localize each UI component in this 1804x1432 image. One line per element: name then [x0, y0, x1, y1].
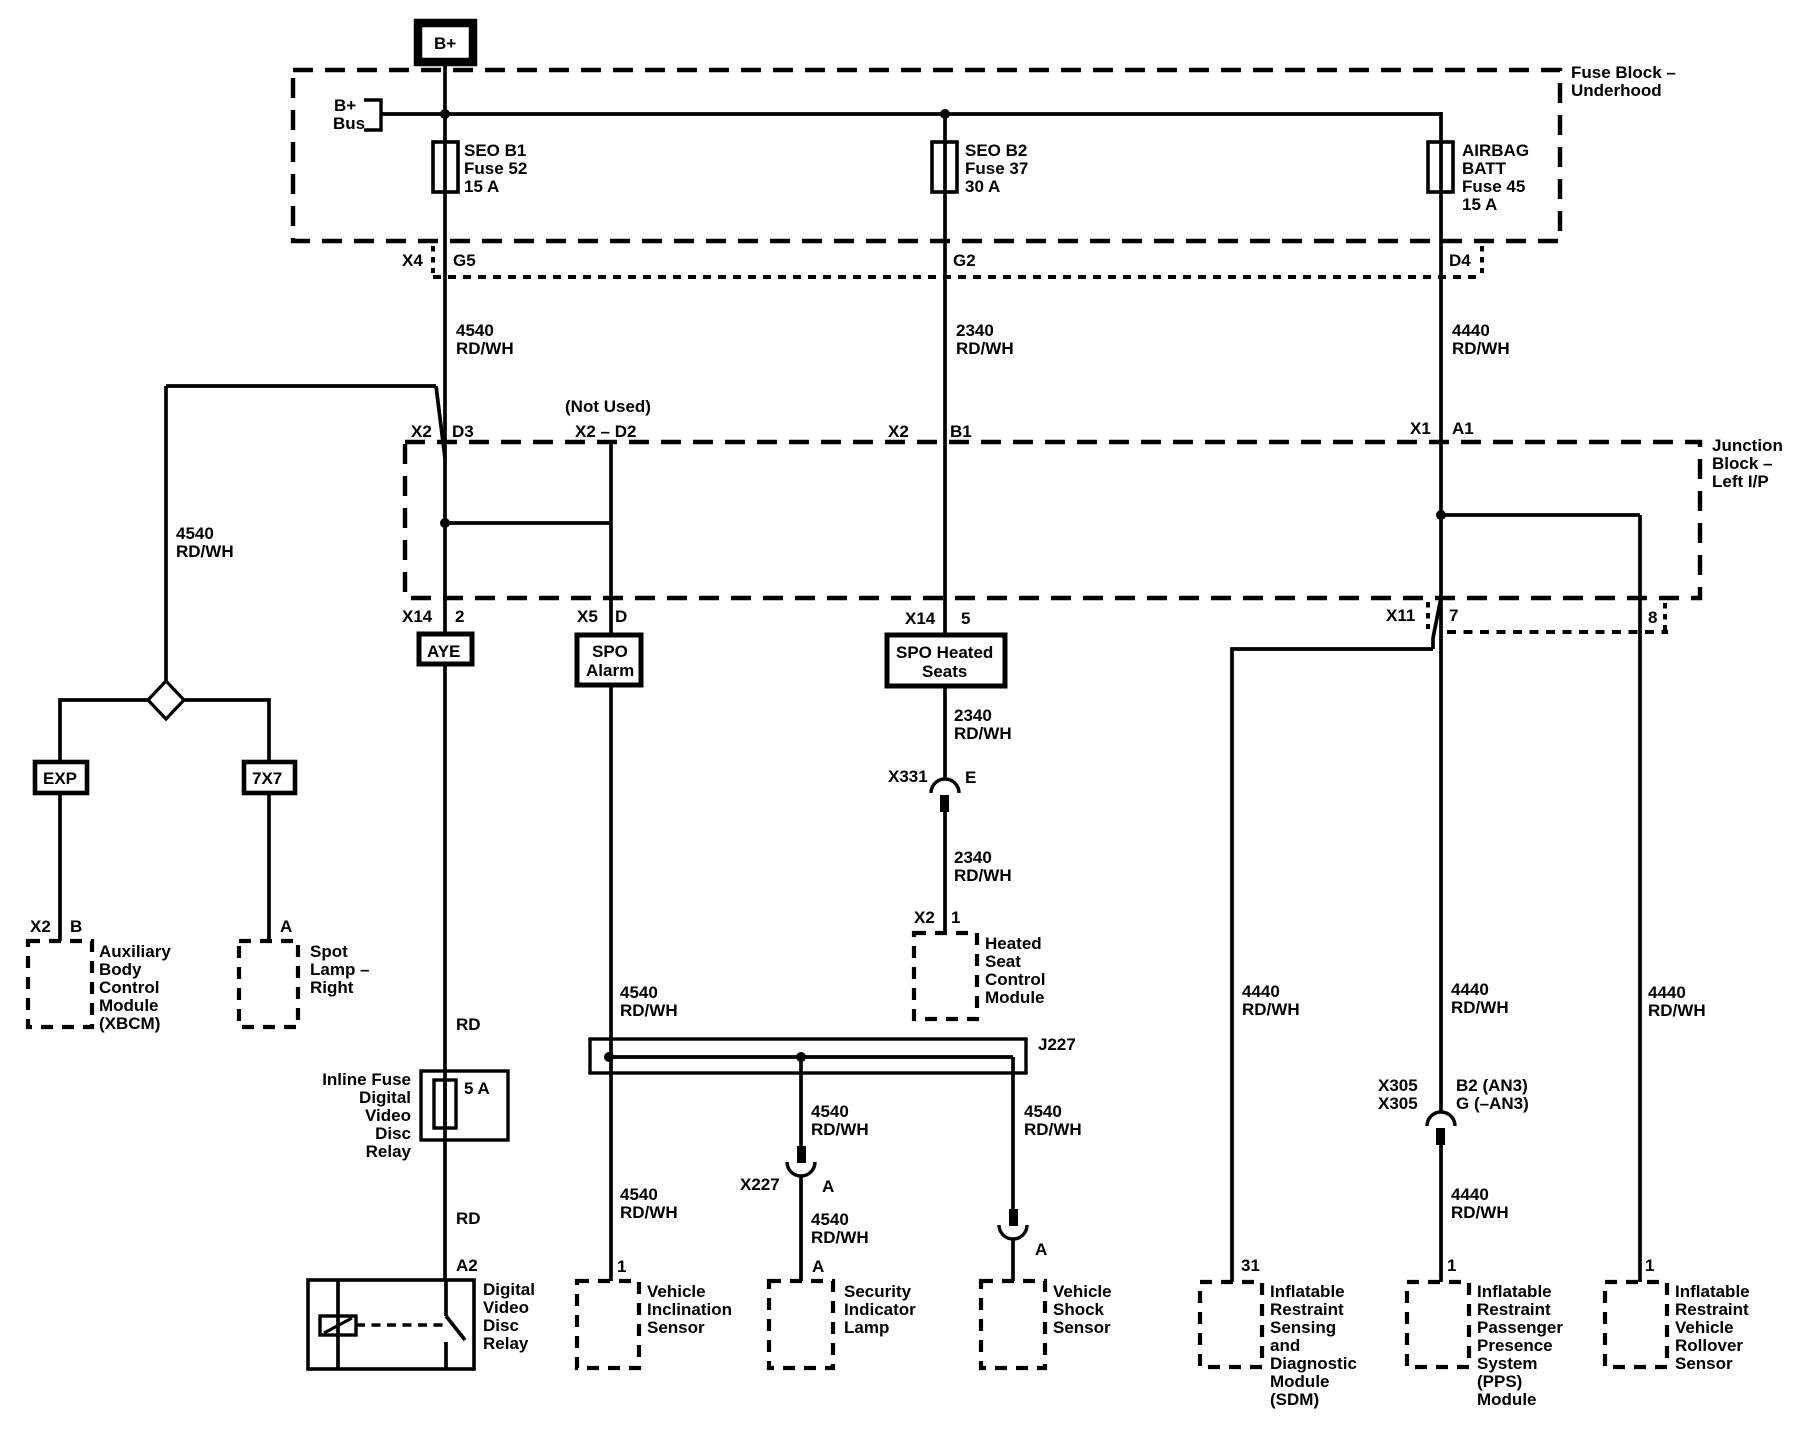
svg-text:7: 7	[1449, 606, 1458, 625]
fuse SEO B2 Fuse 37 30 A	[932, 141, 1028, 196]
svg-text:B: B	[70, 917, 82, 936]
fuse block underhood (dashed box)	[293, 70, 1560, 241]
label (Not Used) X2 - D2	[565, 397, 651, 441]
inline connector X305 pin B2/G	[1378, 1076, 1529, 1145]
svg-text:X11: X11	[1386, 606, 1415, 625]
wire internal link col1 to X5	[445, 521, 611, 525]
wire column2 through junction block	[943, 442, 947, 635]
svg-text:X2: X2	[30, 917, 51, 936]
fuse AIRBAG BATT Fuse 45 15 A	[1428, 141, 1529, 214]
pin label X2 B	[30, 917, 82, 936]
svg-text:D4: D4	[1449, 251, 1471, 270]
svg-text:2340RD/WH: 2340RD/WH	[954, 706, 1012, 743]
svg-text:4540RD/WH: 4540RD/WH	[811, 1102, 869, 1139]
module inflatable restraint PPS (dashed box)	[1407, 1282, 1563, 1409]
node junction dot bus/fuse52	[440, 109, 450, 119]
wire X305 to PPS module	[1439, 1145, 1443, 1282]
svg-text:X1: X1	[1410, 419, 1431, 438]
svg-text:X2 – D2: X2 – D2	[575, 422, 636, 441]
svg-text:InflatableRestraintPassengerPr: InflatableRestraintPassengerPresenceSyst…	[1477, 1282, 1563, 1409]
node junction dot J227 left	[604, 1052, 614, 1062]
wire internal J227 bus	[609, 1055, 1013, 1059]
inline connector X331 pin E	[888, 767, 976, 812]
svg-text:AYE: AYE	[427, 642, 460, 661]
svg-text:X2: X2	[914, 908, 935, 927]
connector SPO Heated Seats	[887, 635, 1005, 686]
wire splice to 7X7	[184, 700, 269, 762]
svg-text:D3: D3	[452, 422, 474, 441]
svg-text:J227: J227	[1038, 1035, 1076, 1054]
wire branch to splice (vertical)	[164, 386, 168, 682]
svg-text:VehicleInclinationSensor: VehicleInclinationSensor	[647, 1282, 732, 1337]
wire SEO B2 feed (column 2, through fuse)	[943, 114, 947, 442]
svg-text:4440RD/WH: 4440RD/WH	[1242, 982, 1300, 1019]
svg-text:InflatableRestraintSensingandD: InflatableRestraintSensingandDiagnosticM…	[1270, 1282, 1357, 1409]
node junction dot col1 internal	[440, 518, 450, 528]
module heated seat control module (dashed box)	[914, 933, 1045, 1019]
wire branch diagonal into D3	[436, 386, 445, 458]
svg-text:7X7: 7X7	[252, 769, 282, 788]
svg-text:X5: X5	[577, 607, 598, 626]
wire heated seats to X331	[943, 686, 947, 779]
svg-text:X14: X14	[402, 607, 433, 626]
svg-text:RD: RD	[456, 1015, 481, 1034]
svg-text:A2: A2	[456, 1256, 478, 1275]
svg-text:31: 31	[1241, 1256, 1260, 1275]
svg-text:X331: X331	[888, 767, 928, 786]
svg-text:A: A	[822, 1177, 834, 1196]
svg-text:4440RD/WH: 4440RD/WH	[1452, 321, 1510, 358]
module vehicle shock sensor (dashed box)	[981, 1281, 1112, 1368]
svg-text:B+: B+	[434, 34, 456, 53]
inline fuse digital video disc relay box	[322, 1070, 508, 1161]
svg-text:A: A	[1035, 1240, 1047, 1259]
wire J227 to X227	[799, 1057, 803, 1146]
wire column3 through junction block	[1439, 442, 1443, 598]
svg-text:4540RD/WH: 4540RD/WH	[620, 983, 678, 1020]
svg-text:A1: A1	[1452, 419, 1474, 438]
wire connector to shock sensor	[1011, 1239, 1015, 1281]
inline connector pin A (shock sensor)	[999, 1209, 1047, 1259]
svg-text:EXP: EXP	[43, 769, 77, 788]
inline connector X227 pin A	[740, 1146, 834, 1196]
wire AIRBAG BATT feed (column 3, through fuse)	[1439, 112, 1443, 442]
svg-text:B+Bus: B+Bus	[333, 96, 365, 133]
svg-text:2: 2	[455, 607, 464, 626]
svg-text:4440RD/WH: 4440RD/WH	[1648, 983, 1706, 1020]
pin label X1 A1	[1410, 419, 1474, 438]
svg-text:AIRBAGBATTFuse 4515 A: AIRBAGBATTFuse 4515 A	[1462, 141, 1529, 214]
wire splice to EXP	[60, 700, 148, 762]
svg-text:SPOAlarm: SPOAlarm	[586, 642, 634, 680]
connector X11 row	[1386, 602, 1668, 632]
svg-text:4540RD/WH: 4540RD/WH	[456, 321, 514, 358]
node junction dot bus/fuse37	[940, 109, 950, 119]
svg-text:1: 1	[617, 1257, 626, 1276]
svg-text:4440RD/WH: 4440RD/WH	[1451, 980, 1509, 1017]
svg-text:X305X305: X305X305	[1378, 1076, 1418, 1113]
svg-text:InflatableRestraintVehicleRoll: InflatableRestraintVehicleRolloverSensor	[1675, 1282, 1750, 1373]
junction block left I/P (dashed box)	[405, 442, 1700, 598]
svg-text:4540RD/WH: 4540RD/WH	[1024, 1102, 1082, 1139]
power symbol B+	[418, 23, 473, 62]
svg-text:8: 8	[1648, 608, 1657, 627]
svg-text:A: A	[812, 1257, 824, 1276]
svg-text:SEO B1Fuse 5215 A: SEO B1Fuse 5215 A	[464, 141, 527, 196]
B+ Bus bracket	[333, 96, 381, 133]
module security indicator lamp (dashed box)	[769, 1281, 916, 1368]
splice pack J227 (box)	[590, 1035, 1076, 1073]
fuse SEO B1 Fuse 52 15 A	[433, 141, 527, 196]
svg-text:1: 1	[951, 908, 960, 927]
wire X331 to heated seat module	[943, 812, 947, 933]
wire branch to splice (horizontal)	[166, 384, 436, 388]
svg-text:G5: G5	[453, 251, 476, 270]
node junction dot col3 internal	[1436, 510, 1446, 520]
module spot lamp right (dashed box)	[239, 941, 370, 1027]
svg-text:B2 (AN3)G (–AN3): B2 (AN3)G (–AN3)	[1456, 1076, 1529, 1113]
svg-text:DigitalVideoDiscRelay: DigitalVideoDiscRelay	[483, 1280, 535, 1353]
connector X4 row (fuse block outputs)	[402, 246, 1482, 277]
svg-text:X4: X4	[402, 251, 423, 270]
wire EXP to XBCM	[58, 793, 62, 941]
wire pin7 jog to SDM branch	[1232, 598, 1441, 1282]
relay digital video disc relay (box)	[308, 1280, 535, 1369]
connector EXP	[35, 762, 87, 793]
svg-text:VehicleShockSensor: VehicleShockSensor	[1053, 1282, 1112, 1337]
svg-text:(Not Used): (Not Used)	[565, 397, 651, 416]
svg-text:4540RD/WH: 4540RD/WH	[620, 1185, 678, 1222]
pin label X2 1	[914, 908, 960, 927]
svg-text:G2: G2	[953, 251, 976, 270]
svg-text:2340RD/WH: 2340RD/WH	[954, 848, 1012, 885]
svg-text:AuxiliaryBodyControlModule(XBC: AuxiliaryBodyControlModule(XBCM)	[99, 942, 171, 1033]
svg-text:X227: X227	[740, 1175, 780, 1194]
svg-text:B1: B1	[950, 422, 972, 441]
wire X227 to lamp	[799, 1176, 803, 1281]
wire column1 junction block through AYE feed	[443, 442, 447, 634]
wire AYE to relay	[443, 664, 447, 1281]
svg-text:JunctionBlock –Left I/P: JunctionBlock –Left I/P	[1712, 436, 1783, 491]
svg-text:1: 1	[1645, 1256, 1654, 1275]
svg-text:A: A	[280, 917, 292, 936]
svg-text:1: 1	[1447, 1256, 1456, 1275]
svg-text:4540RD/WH: 4540RD/WH	[176, 524, 234, 561]
svg-text:Inline FuseDigitalVideoDiscRel: Inline FuseDigitalVideoDiscRelay	[322, 1070, 411, 1161]
wire X5 column (alarm feed)	[609, 442, 613, 635]
svg-text:4440RD/WH: 4440RD/WH	[1451, 1185, 1509, 1222]
pin label X14 2	[402, 607, 464, 626]
pin label X2 D3	[411, 422, 474, 441]
svg-text:RD: RD	[456, 1209, 481, 1228]
svg-text:SecurityIndicatorLamp: SecurityIndicatorLamp	[844, 1282, 916, 1337]
wire main column3 to X305	[1439, 598, 1443, 1112]
module auxiliary body control module XBCM (dashed box)	[28, 941, 171, 1033]
module inflatable restraint SDM (dashed box)	[1200, 1282, 1357, 1409]
wire SPO alarm to J227	[609, 685, 613, 1281]
svg-text:2340RD/WH: 2340RD/WH	[956, 321, 1014, 358]
splice diamond	[148, 681, 184, 719]
module vehicle inclination sensor (dashed box)	[577, 1281, 732, 1368]
pin label X2 B1	[888, 422, 972, 441]
wire rollover sensor column	[1638, 515, 1642, 1282]
connector AYE	[419, 634, 472, 664]
svg-text:SEO B2Fuse 3730 A: SEO B2Fuse 3730 A	[965, 141, 1028, 196]
node junction dot J227 middle	[796, 1052, 806, 1062]
svg-text:Fuse Block –Underhood: Fuse Block –Underhood	[1571, 63, 1676, 100]
svg-text:5 A: 5 A	[464, 1079, 490, 1098]
connector SPO Alarm	[577, 635, 641, 685]
svg-text:5: 5	[961, 609, 970, 628]
svg-text:X2: X2	[411, 422, 432, 441]
svg-text:HeatedSeatControlModule: HeatedSeatControlModule	[985, 934, 1045, 1007]
svg-text:X14: X14	[905, 609, 936, 628]
wire internal link col3 to pin 8	[1441, 513, 1640, 517]
wire B+ feed (column 1, through fuse)	[443, 66, 447, 442]
svg-text:D: D	[615, 607, 627, 626]
wire J227 to shock sensor connector	[1011, 1057, 1015, 1209]
svg-text:X2: X2	[888, 422, 909, 441]
pin label X14 5	[905, 609, 970, 628]
svg-text:E: E	[965, 768, 976, 787]
svg-text:SpotLamp –Right: SpotLamp –Right	[310, 942, 370, 997]
svg-text:4540RD/WH: 4540RD/WH	[811, 1210, 869, 1247]
svg-text:SPO HeatedSeats: SPO HeatedSeats	[896, 643, 993, 681]
pin label X5 D	[577, 607, 627, 626]
connector 7X7	[244, 762, 295, 793]
module inflatable restraint vehicle rollover sensor (dashed box)	[1605, 1282, 1750, 1373]
wire B+ bus	[381, 112, 1441, 116]
wire 7X7 to spot lamp	[267, 793, 271, 941]
